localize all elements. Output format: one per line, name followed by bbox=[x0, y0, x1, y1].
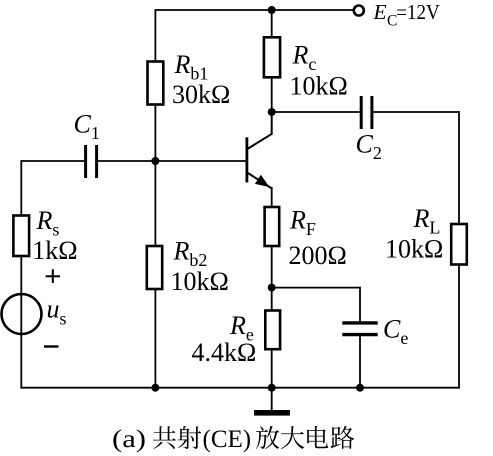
wire source to ground rail bbox=[20, 334, 22, 389]
node base junction bbox=[151, 157, 159, 165]
node collector output bbox=[268, 108, 276, 116]
resistor RL bbox=[451, 224, 467, 265]
resistor Rb2 bbox=[147, 246, 162, 289]
transistor Q base bar bbox=[245, 137, 248, 182]
svg-text:10kΩ: 10kΩ bbox=[385, 235, 443, 264]
wire input row left bbox=[21, 160, 84, 162]
wire ground stub bbox=[271, 388, 273, 411]
resistor Rs bbox=[13, 216, 29, 257]
capacitor Ce plates bbox=[342, 323, 377, 335]
wire Ce branch down to top plate bbox=[359, 287, 361, 322]
wire Rc bottom to collector node bbox=[271, 77, 273, 113]
svg-text:E: E bbox=[373, 0, 387, 24]
node feedback junction bbox=[268, 284, 276, 292]
node bottom emitter bbox=[268, 384, 276, 392]
capacitor C2 plates bbox=[361, 96, 372, 129]
transistor Q collector lead bbox=[247, 112, 271, 149]
wire base node to transistor base bbox=[155, 160, 246, 162]
wire feedback node down to Re bbox=[271, 288, 273, 311]
wire Ce bottom plate to ground rail bbox=[359, 336, 361, 388]
resistor RF bbox=[265, 207, 280, 246]
wire top rail bbox=[155, 9, 354, 11]
ground bar bbox=[254, 410, 290, 416]
node bottom Ce bbox=[356, 384, 364, 392]
wire Rb1 branch top bbox=[154, 9, 156, 62]
svg-text:(a): (a) bbox=[112, 426, 146, 453]
svg-text:=12V: =12V bbox=[396, 0, 440, 24]
transistor Q emitter lead bbox=[247, 173, 271, 189]
caption glyph 共 bbox=[153, 426, 176, 449]
capacitor C1 plates bbox=[86, 145, 97, 178]
svg-text:10kΩ: 10kΩ bbox=[171, 267, 229, 296]
wire right column top bbox=[458, 111, 460, 225]
wire Rb1 bottom to base node bbox=[154, 104, 156, 161]
resistor Re bbox=[265, 311, 280, 350]
wire Re bottom to ground rail bbox=[271, 349, 273, 388]
label minus bbox=[44, 345, 59, 347]
wire RF bottom to feedback node bbox=[271, 245, 273, 288]
resistor Rc bbox=[264, 37, 280, 77]
svg-text:200Ω: 200Ω bbox=[289, 241, 347, 270]
wire Rb2 bottom to ground rail bbox=[154, 289, 156, 388]
transistor Q emitter arrow bbox=[255, 175, 269, 187]
wire C1 to base node bbox=[98, 160, 155, 162]
wire emitter to RF bbox=[271, 187, 273, 208]
wire left column top bbox=[20, 160, 22, 216]
caption glyph 射 bbox=[178, 426, 202, 449]
label plus bbox=[46, 269, 60, 283]
wire collector top branch bbox=[271, 9, 273, 38]
terminal EC supply bbox=[354, 6, 364, 16]
svg-text:10kΩ: 10kΩ bbox=[290, 72, 348, 101]
node top rail collector branch bbox=[268, 6, 276, 14]
wire base node down to Rb2 bbox=[154, 161, 156, 247]
caption glyph 电 bbox=[307, 426, 328, 448]
caption glyph 大 bbox=[281, 426, 304, 449]
caption glyph 路 bbox=[331, 426, 355, 449]
wire feedback node to Ce branch bbox=[272, 287, 360, 289]
caption glyph 放 bbox=[256, 426, 279, 449]
wire Rs to source bbox=[20, 255, 22, 295]
source us circle bbox=[2, 294, 42, 334]
wire bottom rail bbox=[21, 387, 459, 389]
node bottom Rb2 bbox=[151, 384, 159, 392]
svg-text:30kΩ: 30kΩ bbox=[172, 80, 230, 109]
svg-text:1kΩ: 1kΩ bbox=[32, 236, 77, 265]
source us wire through bbox=[20, 295, 22, 334]
wire collector node to C2 bbox=[272, 111, 360, 113]
svg-text:4.4kΩ: 4.4kΩ bbox=[192, 338, 257, 367]
wire RL bottom to ground rail bbox=[458, 264, 460, 389]
svg-text:(CE): (CE) bbox=[203, 426, 252, 453]
wire C2 to right corner bbox=[373, 111, 459, 113]
resistor Rb1 bbox=[148, 62, 164, 105]
